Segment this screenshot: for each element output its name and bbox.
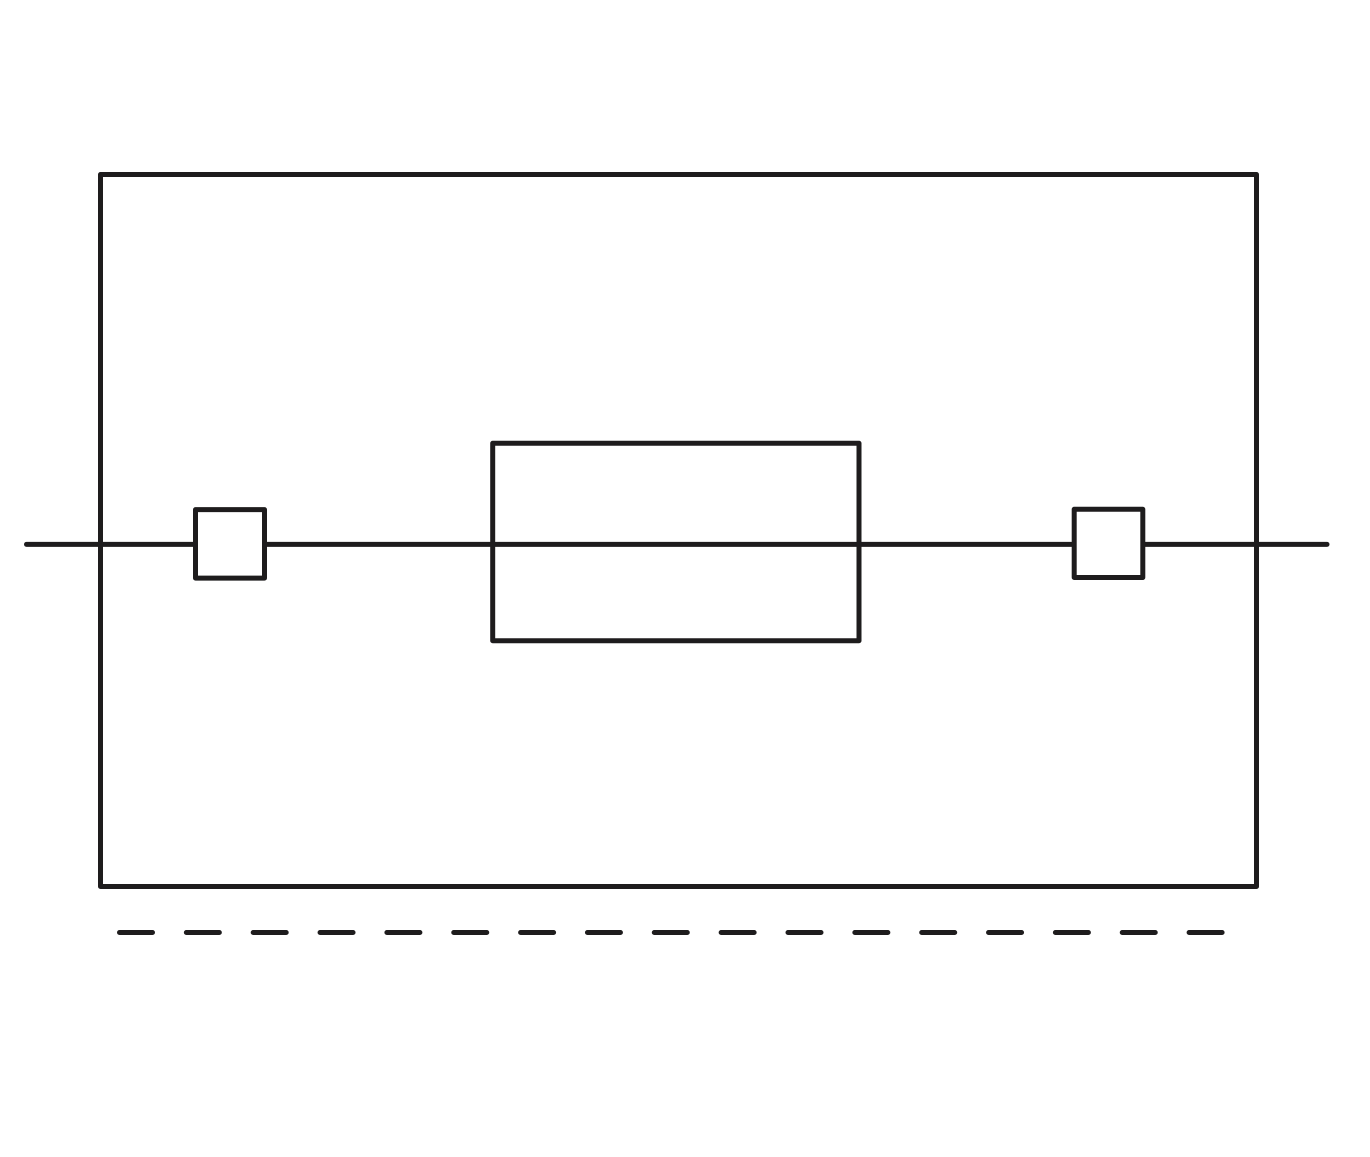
wire (through conductor path) — [27, 542, 1328, 547]
clamp contact left (cage clamp) — [196, 510, 265, 578]
DIN rail (dashed mounting rail line) — [120, 930, 1223, 935]
clamp contact right (cage clamp) — [1074, 509, 1143, 577]
terminal block outline — [101, 175, 1257, 887]
fuse (cartridge fuse holder) — [493, 443, 859, 640]
